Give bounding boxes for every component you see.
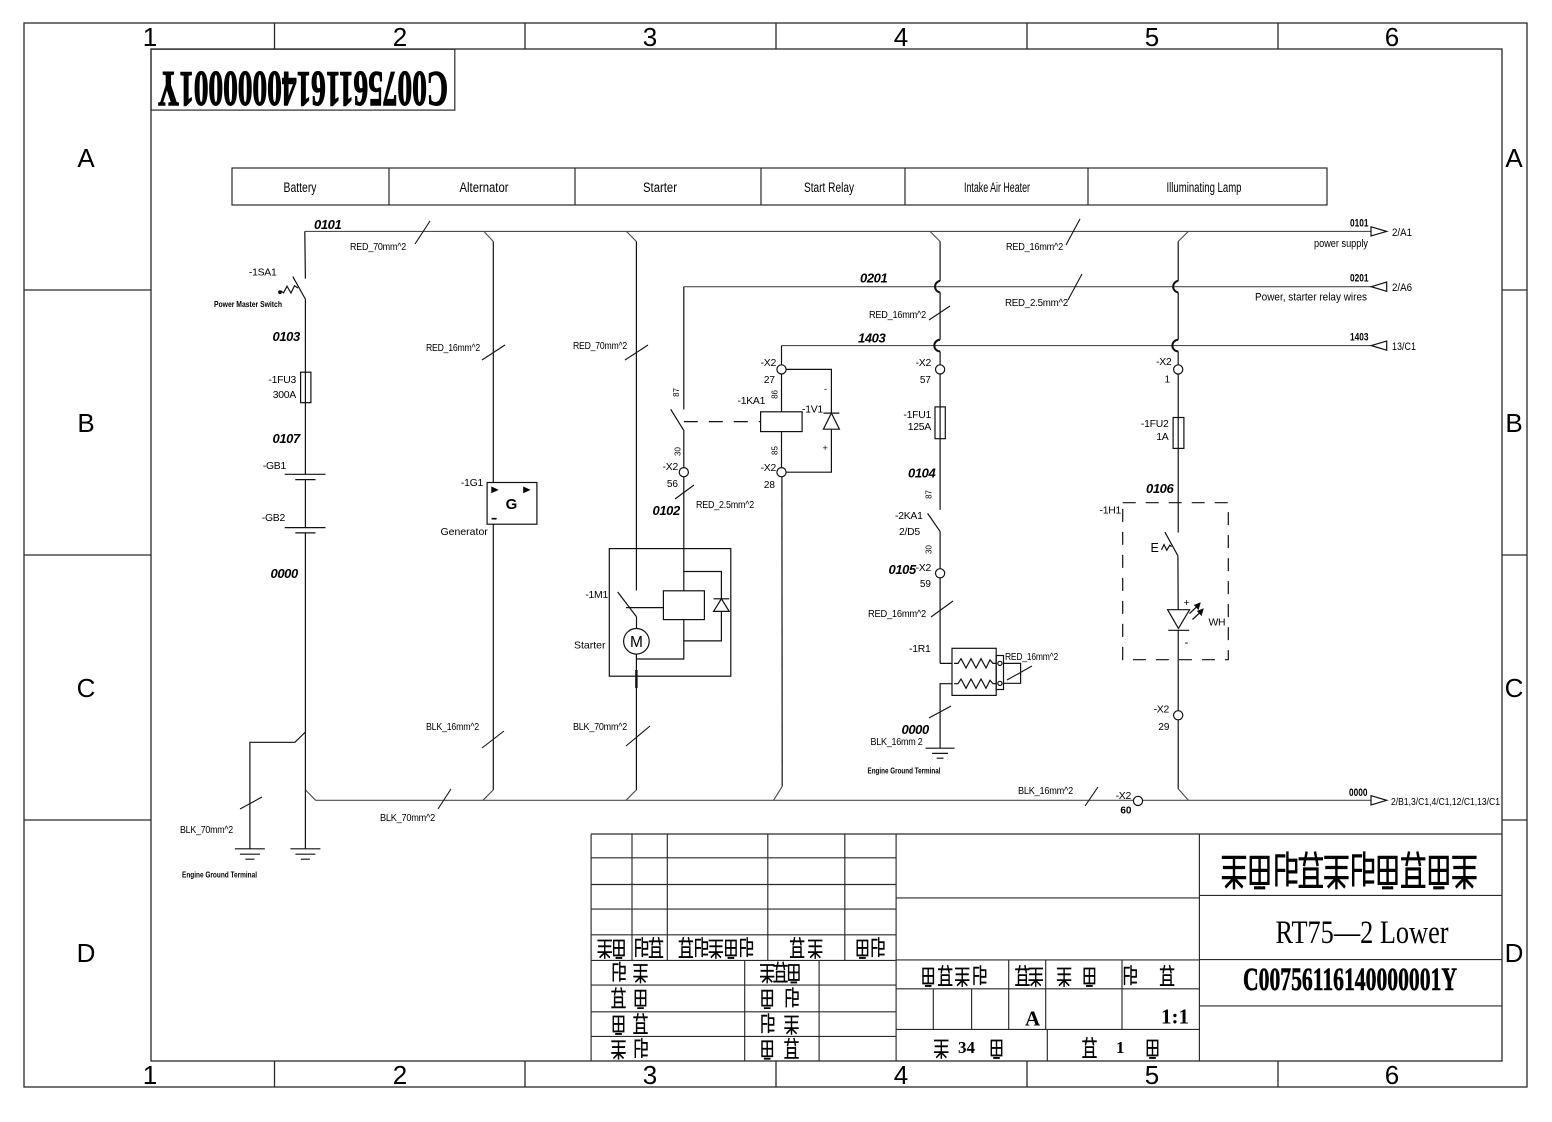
工艺 [612,1041,625,1058]
slash 0101 RED_16 right [1066,219,1080,245]
svg-text:27: 27 [764,375,776,386]
wire 1403 bus [782,345,1372,347]
svg-text:-1H1: -1H1 [1100,506,1122,517]
svg-text:1: 1 [143,22,157,52]
revision table horizontals [591,858,896,1037]
contact -1M1 blade [618,592,637,617]
处数 [636,938,648,956]
svg-text:WH: WH [1209,618,1226,629]
svg-text:-X2: -X2 [1156,357,1172,368]
wire 0107 [304,403,306,475]
resistor element 1 zigzag [954,659,996,668]
wire RED_16 drop [492,242,494,483]
wire blade link to solenoid [626,607,663,609]
right section horizontals [1199,895,1502,1006]
svg-text:Power, starter relay wires: Power, starter relay wires [1255,292,1367,304]
svg-text:-X2: -X2 [761,463,777,474]
slash 1R1 RED_16 [1007,666,1032,680]
svg-text:B: B [77,408,94,438]
svg-text:-1V1: -1V1 [802,405,823,416]
wire 30 to connector [683,431,685,468]
arrow 0000 to 2/B1... [1371,796,1387,805]
svg-text:0104: 0104 [908,466,936,481]
svg-text:RED_16mm^2: RED_16mm^2 [426,343,480,354]
ground symbol resistor [926,748,955,758]
starter box -1M1 [609,549,731,677]
wire 0101 power supply bus [305,230,1371,232]
svg-text:1: 1 [143,1060,157,1090]
更改文件号 [679,938,692,957]
svg-text:Battery: Battery [284,180,317,195]
sheet reference arrows [1371,227,1387,805]
wire below switch [1177,555,1179,609]
wire 0101 drop [304,231,307,278]
battery -GB2 [285,528,326,533]
wire contact to motor [636,617,638,629]
标准化 [761,965,774,982]
svg-text:Starter: Starter [574,640,606,652]
wire jog starter to bus [626,790,636,800]
svg-text:BLK_16mm^2: BLK_16mm^2 [426,722,479,733]
wire GB1-GB2 [304,480,306,528]
标记 [598,940,611,957]
wire 86 [781,374,783,412]
slash bus BLK_70 [438,789,451,809]
fuse -1FU2 1A [1173,418,1184,449]
switch -1SA1 manual actuator [281,286,298,293]
wire BLK_70 to bus [635,676,637,790]
svg-text:-: - [824,384,827,394]
svg-text:A: A [1505,143,1523,173]
svg-text:-X2: -X2 [663,462,679,473]
connector -X2 29 [1174,711,1183,720]
slash 0102 RED_2.5 [675,485,694,499]
signature verticals bottom [745,960,819,1061]
solenoid coil box [663,591,704,620]
LED cathode bar [1168,629,1189,631]
svg-text:6: 6 [1385,22,1399,52]
重量 [1058,968,1071,985]
slash starter RED_70 [625,345,648,360]
svg-text:G: G [506,496,518,513]
svg-text:0101: 0101 [1350,218,1369,230]
slash bus BLK_16 [1085,787,1098,806]
contact -1KA1 blade [671,409,684,431]
svg-text:60: 60 [1120,806,1132,817]
svg-text:Illuminating Lamp: Illuminating Lamp [1167,180,1242,195]
svg-text:5: 5 [1145,1060,1159,1090]
middle section [896,834,1199,1061]
svg-text:5: 5 [1145,22,1159,52]
svg-text:87: 87 [672,387,681,396]
wire 0105 down [940,578,952,664]
wire 0106 [1177,448,1179,532]
svg-text:Engine Ground Terminal: Engine Ground Terminal [868,766,941,776]
svg-text:3: 3 [643,22,657,52]
slash 0201 RED_2.5 [1068,274,1082,300]
resistor -1R1 box [952,648,996,695]
top band ticks [275,23,1279,49]
LED light arrows [1190,607,1201,620]
wire LED down [1177,630,1179,710]
connector -X2 60 on bus [1133,796,1142,805]
wire drop with hops [939,242,941,365]
wire branch stub starter [626,231,636,241]
slash resistor BLK_16 [929,706,951,718]
switch E blade [1165,532,1178,555]
svg-text:0107: 0107 [273,431,301,446]
svg-text:57: 57 [920,375,932,386]
svg-text:125A: 125A [908,422,932,433]
slash 0105 RED_16 [931,601,953,617]
校对 [612,988,625,1007]
svg-text:RED_70mm^2: RED_70mm^2 [350,242,406,253]
svg-text:RED_2.5mm^2: RED_2.5mm^2 [1005,298,1068,309]
svg-text:+: + [823,443,828,453]
revision table verticals top [632,834,896,1061]
wire 1403 drop [781,346,783,365]
right band dividers [1502,290,1527,820]
LED triangle [1168,610,1190,629]
svg-text:M: M [630,634,643,651]
wire branch stub lamp [1178,231,1188,241]
wire hop arc at 1403 lamp [1172,340,1178,352]
svg-text:2: 2 [393,1060,407,1090]
svg-text:0105: 0105 [889,562,917,577]
svg-text:2/D5: 2/D5 [899,527,920,538]
left band dividers [24,290,151,820]
svg-text:RED_16mm^2: RED_16mm^2 [1005,652,1058,663]
批准 [762,1014,774,1032]
svg-text:13/C1: 13/C1 [1392,341,1416,353]
wire series link loop [1004,663,1021,683]
lamp unit -1H1 dashed box [1123,503,1229,660]
wire 0201 drop [683,287,685,410]
第 页 [1083,1038,1096,1057]
svg-text:C00756116140000001Y: C00756116140000001Y [1243,962,1457,998]
签字 [791,938,804,957]
wire 85 [781,432,783,468]
svg-text:C: C [77,673,96,703]
日期 [857,940,867,957]
svg-text:-1FU3: -1FU3 [268,375,296,386]
slash 1403 RED_16 [929,306,950,320]
svg-text:Starter: Starter [643,180,677,195]
svg-text:Alternator: Alternator [460,180,509,195]
svg-text:1: 1 [1164,375,1170,386]
wire diode down and left [684,611,722,641]
设计 [613,963,625,981]
wire 0103 [304,300,306,373]
svg-text:RED_70mm^2: RED_70mm^2 [573,341,627,352]
wire diode branch top [786,369,831,413]
svg-text:-1KA1: -1KA1 [738,396,766,407]
svg-text:BLK_70mm^2: BLK_70mm^2 [380,813,435,824]
svg-text:2/A1: 2/A1 [1392,227,1412,239]
title block outline [591,834,1502,1061]
svg-text:RED_16mm^2: RED_16mm^2 [868,609,926,620]
svg-text:E: E [1151,541,1159,555]
wire hop arc at 0201 [935,281,940,293]
connector -X2 28 [777,468,786,477]
slash alternator RED_16 [482,345,505,360]
svg-text:56: 56 [667,479,679,490]
svg-text:BLK_16mm^2: BLK_16mm^2 [1018,786,1073,797]
wire resistor return to ground [940,684,952,749]
svg-text:C00756116140000001Y: C00756116140000001Y [158,62,448,118]
wire jog lamp to bus [1178,789,1188,801]
relay coil -1KA1 [761,412,803,432]
slash 0101 RED_70 [415,221,430,244]
connector -X2 27 [777,365,786,374]
wire hop arc at 0201 lamp [1173,281,1178,293]
wire inside to contact [635,549,637,591]
svg-text:2: 2 [393,22,407,52]
diode starter cathode bar [714,598,730,600]
svg-text:3: 3 [643,1060,657,1090]
svg-text:BLK_70mm^2: BLK_70mm^2 [180,825,233,836]
svg-text:0000: 0000 [1349,787,1368,799]
diode -1V1 triangle [823,413,839,429]
company name 中联重科股份有限公司 [1223,853,1475,888]
generator minus [492,518,497,520]
svg-text:-1G1: -1G1 [461,478,484,489]
svg-text:0201: 0201 [860,271,887,286]
wire branch jog to left ground [250,732,306,849]
slash alternator BLK_16 [482,731,504,748]
svg-text:0201: 0201 [1350,273,1369,285]
svg-text:-2KA1: -2KA1 [895,511,923,522]
svg-text:Intake Air Heater: Intake Air Heater [964,180,1030,195]
wire 0102 inside box [683,549,685,591]
ground symbol left 1 [235,849,265,859]
审定 [762,991,772,1008]
wire jog battery to bus [305,790,315,800]
svg-text:0000: 0000 [271,566,299,581]
fuse -1FU1 125A [935,407,945,439]
svg-text:-1M1: -1M1 [585,590,608,601]
svg-text:34: 34 [958,1038,976,1057]
bottom band ticks [275,1061,1279,1087]
wire 0000 ground bus [316,799,1371,801]
middle verticals [933,960,1122,1061]
wire solenoid top bypass to diode [684,572,722,599]
svg-text:power supply: power supply [1314,238,1368,250]
svg-text:-X2: -X2 [761,358,777,369]
版本 [1016,966,1029,985]
svg-text:A: A [77,143,95,173]
wire jog relay return to bus [774,786,783,800]
generator terminal marks [491,487,498,494]
ground symbol left 2 [290,849,320,859]
日期2 [762,1041,772,1058]
wire X2 28 down to bus [781,477,783,787]
mechanical link dashed [684,421,761,423]
svg-text:C: C [1505,673,1524,703]
contact -2KA1 blade [928,513,940,531]
svg-text:0101: 0101 [314,217,341,232]
svg-text:-X2: -X2 [1116,791,1132,802]
diode -1V1 cathode bar [823,412,839,414]
slash starter BLK_70 [626,726,650,746]
svg-text:-: - [1185,637,1189,649]
svg-text:28: 28 [764,480,776,491]
wire solenoid bottom down [636,620,683,659]
svg-text:-GB1: -GB1 [263,461,287,472]
resistor terminal block [996,656,1003,690]
inner drawing frame [151,49,1502,1061]
svg-text:0000: 0000 [902,722,930,737]
svg-text:D: D [1505,938,1524,968]
wire drop with hops [1177,242,1179,365]
svg-text:Start Relay: Start Relay [804,180,854,195]
svg-text:6: 6 [1385,1060,1399,1090]
generator -1G1 box [487,483,537,525]
fuse -1FU3 300A [301,372,311,403]
switch E actuator zigzag [1162,545,1172,551]
svg-text:0106: 0106 [1146,481,1174,496]
wire to fuse [1177,374,1179,418]
svg-text:RED_2.5mm^2: RED_2.5mm^2 [696,500,754,511]
svg-text:RT75—2 Lower: RT75—2 Lower [1276,915,1449,951]
wire hop arc at 1403 [934,340,940,352]
italic node labels [271,217,1175,737]
arrow 0201 from 2/A6 [1371,282,1386,291]
resistor element 2 zigzag [954,679,996,688]
svg-text:-X2: -X2 [916,358,932,369]
svg-text:2/A6: 2/A6 [1392,282,1412,294]
battery -GB1 [285,474,326,479]
connector -X2 59 [936,569,945,578]
wire jog alternator to bus [483,790,493,800]
diode starter triangle [714,599,730,612]
wire 0000 down to ground [304,533,306,849]
svg-text:Engine Ground Terminal: Engine Ground Terminal [182,870,257,880]
比例 [1125,966,1137,984]
slash battery BLK_70 [240,797,262,809]
svg-text:RED_16mm^2: RED_16mm^2 [869,310,926,321]
arrow 0101 to 2/A1 [1371,227,1387,236]
svg-text:-1FU1: -1FU1 [903,410,931,421]
svg-text:86: 86 [771,389,780,398]
svg-text:B: B [1505,408,1522,438]
svg-text:RED_16mm^2: RED_16mm^2 [1006,242,1063,253]
svg-text:0102: 0102 [653,503,681,518]
svg-text:1: 1 [1116,1038,1125,1057]
svg-text:29: 29 [1158,722,1170,733]
svg-text:2/B1,3/C1,4/C1,12/C1,13/C1: 2/B1,3/C1,4/C1,12/C1,13/C1 [1391,797,1500,808]
审核 [613,1016,623,1033]
connector -X2 1 [1174,365,1183,374]
svg-text:1:1: 1:1 [1161,1005,1189,1029]
wire diode bottom [786,429,831,472]
svg-text:0103: 0103 [273,329,301,344]
wire motor to box bottom [635,654,637,676]
图样标记 [923,968,933,985]
wire to bus [1177,720,1179,789]
svg-text:-X2: -X2 [916,563,932,574]
connector -X2 57 [936,365,945,374]
svg-text:87: 87 [925,489,934,498]
svg-text:+: + [1184,597,1190,609]
switch -1SA1 blade [293,277,306,300]
svg-text:Power Master Switch: Power Master Switch [214,299,282,309]
svg-text:4: 4 [894,22,908,52]
svg-text:59: 59 [920,579,932,590]
wire 0102 to starter box [683,477,685,549]
connector -X2 56 [679,468,688,477]
wire branch stub alternator [484,231,493,241]
svg-text:30: 30 [674,447,683,456]
wire 30 to connector [939,531,941,568]
svg-text:-GB2: -GB2 [262,513,286,524]
svg-text:1403: 1403 [858,331,886,346]
svg-text:BLK_70mm^2: BLK_70mm^2 [573,722,627,733]
svg-text:30: 30 [925,545,934,554]
svg-text:85: 85 [771,446,780,455]
svg-text:1403: 1403 [1350,332,1369,344]
svg-text:D: D [77,938,96,968]
svg-text:A: A [1025,1007,1041,1031]
svg-text:Generator: Generator [441,526,489,538]
svg-text:300A: 300A [273,390,297,401]
svg-text:4: 4 [894,1060,908,1090]
wire BLK_16 to bus [492,524,494,790]
共 页 [935,1040,948,1057]
wire 0201 bus [684,286,1371,288]
svg-text:1A: 1A [1156,432,1169,443]
wire RED_70 drop [635,242,637,549]
motor M circle [624,629,650,655]
svg-text:-X2: -X2 [1154,705,1170,716]
arrow 1403 from 13/C1 [1371,341,1386,350]
svg-text:BLK_16mm 2: BLK_16mm 2 [871,737,923,748]
svg-text:-1SA1: -1SA1 [249,268,277,279]
wire branch stub heater [930,231,940,241]
svg-text:-1R1: -1R1 [909,644,931,655]
svg-text:-1FU2: -1FU2 [1141,419,1169,430]
title block CJK small text [598,938,1173,1059]
wire to fuse [939,374,941,407]
wire 0104 [939,439,941,510]
